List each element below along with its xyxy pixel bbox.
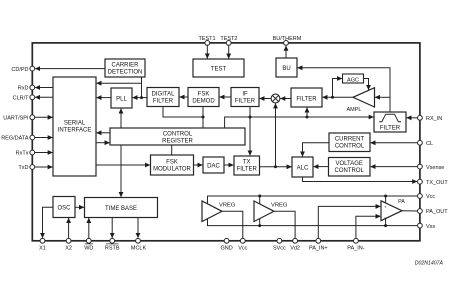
svg-text:RX_IN: RX_IN: [426, 116, 442, 122]
pin GND: [224, 238, 229, 243]
block IF FILTER: [231, 88, 259, 107]
svg-text:FILTER: FILTER: [380, 126, 401, 132]
junction bus at FILTER branch: [306, 116, 309, 119]
wire SERIAL INTERFACE to pin CLR/T: [35, 96, 53, 98]
wire pin Vsense to VOLTAGE CONTROL: [371, 166, 418, 168]
svg-text:TX: TX: [243, 160, 251, 166]
pin RxTx: [30, 150, 35, 155]
block FSK DEMOD: [188, 88, 219, 107]
wire PA output to pin PA_OUT: [402, 210, 418, 212]
svg-text:+: +: [384, 204, 387, 209]
wire pin WD to TIME BASE: [88, 218, 90, 238]
svg-text:RxTx: RxTx: [16, 151, 29, 157]
wire CONTROL REGISTER to FSK MODULATOR: [171, 145, 173, 155]
svg-text:INTERFACE: INTERFACE: [58, 128, 92, 134]
svg-text:PLL: PLL: [116, 97, 127, 103]
svg-text:Vcc: Vcc: [426, 194, 435, 200]
pin Vcc: [418, 194, 423, 199]
pin SVcc: [277, 238, 282, 243]
pin CLR/T: [30, 95, 35, 100]
pin PA_IN+: [316, 238, 321, 243]
overline pin WD: [85, 243, 93, 245]
svg-text:CONTROL: CONTROL: [163, 132, 193, 138]
svg-text:PA_IN-: PA_IN-: [347, 246, 364, 252]
Vcc power rail: [208, 196, 418, 204]
wire IF FILTER to FSK DEMOD: [220, 96, 231, 98]
block FILTER (IF chain): [291, 88, 322, 107]
wire bus branch up to IF FILTER: [249, 107, 251, 118]
wire TX tap up to mixer: [275, 104, 277, 167]
regulator VREG1 (triangle): [202, 201, 222, 222]
wire ALC to pin TX_OUT: [303, 177, 418, 182]
svg-text:TEST: TEST: [211, 67, 227, 73]
pin TxD: [30, 165, 35, 170]
wire TX FILTER to ALC: [260, 166, 292, 168]
svg-text:DIGITAL: DIGITAL: [152, 92, 176, 98]
wire CONTROL REGISTER to PLL: [120, 109, 122, 128]
svg-text:TEST2: TEST2: [220, 36, 237, 42]
svg-text:Vsense: Vsense: [426, 165, 444, 171]
block AGC: [343, 74, 364, 83]
mixer (multiplier circle): [271, 94, 280, 103]
svg-text:REG/DATA: REG/DATA: [1, 136, 29, 142]
wire DIGITAL FILTER to PLL: [133, 97, 147, 99]
wire pin TEST2 to TEST: [228, 45, 230, 58]
svg-text:CURRENT: CURRENT: [335, 137, 365, 143]
wire CURRENT CONTROL to ALC: [303, 143, 330, 157]
wire pin REG/DATA to SERIAL INTERFACE: [35, 137, 53, 139]
svg-text:FILTER: FILTER: [296, 97, 317, 103]
block BU: [276, 58, 297, 77]
junction TX line to mixer tap: [274, 165, 277, 168]
wire TIME BASE to pin RSTB: [111, 218, 113, 238]
svg-text:MCLK: MCLK: [131, 246, 147, 252]
svg-text:AMPL: AMPL: [347, 107, 362, 113]
svg-text:PA_OUT: PA_OUT: [426, 209, 448, 215]
junction on demod line: [140, 96, 143, 99]
block DAC: [203, 157, 224, 173]
wire pin PA_IN+ to PA: [318, 206, 380, 238]
svg-text:VOLTAGE: VOLTAGE: [335, 161, 362, 167]
wire SERIAL INTERFACE to pin RxD: [35, 87, 53, 89]
wire pin TxD to SERIAL INTERFACE: [35, 166, 53, 168]
VREG2 bottom tap: [259, 219, 261, 226]
svg-text:Vcc: Vcc: [238, 246, 247, 252]
svg-text:UART/SPI: UART/SPI: [3, 116, 29, 122]
svg-text:TIME BASE: TIME BASE: [105, 206, 137, 212]
wire band-pass filter top to BU input: [298, 68, 390, 112]
junction bus at IF FILTER branch: [249, 116, 252, 119]
wire FSK DEMOD to DIGITAL FILTER: [180, 96, 188, 98]
wire demod tap up to CARRIER DETECTION: [141, 77, 143, 98]
wire pin CL to CURRENT CONTROL: [371, 142, 418, 144]
svg-text:FSK: FSK: [198, 92, 210, 98]
svg-text:CONTROL: CONTROL: [335, 144, 365, 150]
pin MCLK: [136, 238, 141, 243]
pin REG/DATA: [30, 135, 35, 140]
pin Vsense: [418, 164, 423, 169]
svg-text:IF: IF: [242, 92, 248, 98]
block TIME BASE: [85, 198, 158, 218]
pin Vss: [418, 223, 423, 228]
wire TIME BASE to pin MCLK: [137, 218, 139, 238]
wire OSC to pin X1: [43, 207, 54, 238]
junction at AMPL output: [331, 96, 334, 99]
block band-pass FILTER (RX input filter): [374, 112, 406, 132]
wire VREG2 output to pin Vd2: [274, 211, 295, 238]
pin TX_OUT: [418, 179, 423, 184]
svg-text:DETECTION: DETECTION: [108, 70, 143, 76]
pin Vd2: [293, 238, 298, 243]
svg-text:DEMOD: DEMOD: [192, 99, 215, 105]
wire bus branch up to FILTER: [306, 108, 308, 117]
wire to AMPL input: [375, 96, 390, 98]
svg-text:CARRIER: CARRIER: [111, 63, 139, 69]
svg-text:REGISTER: REGISTER: [162, 139, 193, 145]
wire DAC to TX FILTER: [224, 164, 233, 166]
wire pin PA_IN- to PA: [356, 216, 381, 238]
pin CD/PD: [30, 66, 35, 71]
wire VREG1 output to pin Vcc (bottom): [222, 211, 243, 238]
VREG2 top tap: [259, 196, 261, 204]
wire AMPL output to FILTER: [323, 96, 353, 98]
svg-text:GND: GND: [220, 246, 232, 252]
block TEST: [193, 59, 244, 77]
block CONTROL REGISTER: [110, 128, 245, 145]
block FSK MODULATOR: [151, 155, 194, 175]
control bus: CONTROL REGISTER to IF FILTER / FILTER / band-pass FILTER: [225, 117, 374, 128]
svg-text:MODULATOR: MODULATOR: [153, 167, 191, 173]
svg-text:PA: PA: [398, 199, 405, 205]
block CURRENT CONTROL: [329, 133, 370, 152]
svg-text:PA_IN+: PA_IN+: [309, 246, 328, 252]
wire SERIAL INTERFACE to CONTROL REGISTER: [96, 142, 109, 144]
svg-text:X2: X2: [65, 246, 72, 252]
wire FSK MODULATOR to DAC: [194, 164, 203, 166]
pin name labels: [1, 36, 448, 251]
wire VOLTAGE CONTROL to ALC: [314, 166, 329, 168]
svg-text:CONTROL: CONTROL: [335, 168, 365, 174]
svg-text:DAC: DAC: [207, 164, 220, 170]
svg-text:BU: BU: [282, 66, 290, 72]
wire BU to pin BU/THERM: [285, 46, 287, 58]
block SERIAL INTERFACE: [53, 77, 96, 176]
wire CONTROL REGISTER to TIME BASE: [120, 145, 122, 197]
pin PA_OUT: [418, 209, 423, 214]
wire SERIAL INTERFACE to FSK MODULATOR: [96, 164, 150, 166]
svg-text:FSK: FSK: [166, 160, 178, 166]
svg-text:CLR/T: CLR/T: [13, 96, 30, 102]
wire RX_IN to band-pass FILTER: [407, 117, 418, 119]
svg-text:RSTB: RSTB: [105, 246, 120, 252]
pin BU/THERM: [284, 41, 289, 46]
pin Vcc (bottom): [240, 238, 245, 243]
svg-text:WD: WD: [84, 246, 93, 252]
wire carrier tap to SERIAL INTERFACE: [97, 82, 142, 84]
pin CL: [418, 140, 423, 145]
block TX FILTER: [234, 156, 260, 175]
amplifier AMPL (triangle pointing left): [353, 88, 375, 107]
svg-text:VREG: VREG: [219, 203, 236, 209]
block VOLTAGE CONTROL: [329, 158, 371, 177]
outer chip boundary box: [32, 43, 420, 241]
wire OSC to TIME BASE: [75, 206, 84, 208]
block CARRIER DETECTION: [105, 59, 145, 77]
svg-text:CD/PD: CD/PD: [11, 67, 28, 73]
wire pin X2 to OSC: [68, 218, 70, 238]
svg-text:Vss: Vss: [426, 224, 435, 230]
wire AGC input tap: [333, 79, 342, 98]
wire CONTROL REGISTER to SERIAL INTERFACE: [97, 132, 110, 134]
pin RxD: [30, 85, 35, 90]
wire pin UART/SPI to SERIAL INTERFACE: [35, 116, 53, 118]
svg-text:TX_OUT: TX_OUT: [426, 180, 448, 186]
svg-text:D02N1407A: D02N1407A: [415, 261, 444, 267]
wire AGC output to AMPL: [364, 79, 369, 90]
wire pin TEST1 to TEST: [206, 45, 208, 58]
svg-text:CL: CL: [426, 141, 433, 147]
pin PA_IN-: [354, 238, 359, 243]
wire FILTER to mixer: [281, 98, 292, 100]
svg-text:RxD: RxD: [18, 86, 29, 92]
pin TEST2: [226, 41, 231, 46]
pin TEST1: [205, 41, 210, 46]
pin RX_IN: [418, 115, 423, 120]
block DIGITAL FILTER: [147, 88, 179, 107]
svg-text:Vd2: Vd2: [290, 246, 300, 252]
pin X2: [66, 238, 71, 243]
svg-text:TxD: TxD: [18, 165, 28, 171]
svg-text:FILTER: FILTER: [237, 167, 258, 173]
wire mixer to IF FILTER: [260, 98, 272, 100]
pin X1: [40, 238, 45, 243]
control bus: DIGITAL FILTER / FSK DEMOD to CONTROL REGISTER: [163, 107, 203, 118]
regulator VREG2 (triangle): [254, 201, 274, 222]
svg-text:FILTER: FILTER: [235, 99, 256, 105]
svg-text:ALC: ALC: [297, 166, 309, 172]
wire PLL to SERIAL INTERFACE: [97, 97, 111, 99]
wire bus branch down to TX FILTER: [249, 117, 251, 155]
pin RSTB: [110, 238, 115, 243]
PA bottom tap: [385, 219, 387, 226]
wire pin RxTX to SERIAL INTERFACE: [35, 152, 53, 154]
block ALC: [292, 157, 313, 177]
svg-text:VREG: VREG: [271, 203, 288, 209]
svg-text:FILTER: FILTER: [153, 99, 174, 105]
pin UART/SPI: [30, 115, 35, 120]
wire CARRIER DETECTION to pin CD/PD: [35, 68, 105, 70]
svg-text:BU/THERM: BU/THERM: [273, 36, 302, 42]
svg-text:OSC: OSC: [57, 206, 71, 212]
svg-text:AGC: AGC: [347, 77, 359, 83]
svg-text:TEST1: TEST1: [198, 36, 215, 42]
block OSC: [53, 197, 75, 218]
PA top tap: [385, 196, 387, 203]
svg-text:SVcc: SVcc: [273, 246, 286, 252]
junction control bus A: [202, 116, 205, 119]
amplifier PA (triangle): [381, 201, 402, 221]
block PLL: [111, 88, 132, 108]
svg-text:X1: X1: [39, 246, 46, 252]
Vss power rail: [208, 219, 418, 226]
pin WD: [86, 238, 91, 243]
overline pin RSTB: [106, 243, 119, 245]
svg-text:SERIAL: SERIAL: [64, 121, 86, 127]
